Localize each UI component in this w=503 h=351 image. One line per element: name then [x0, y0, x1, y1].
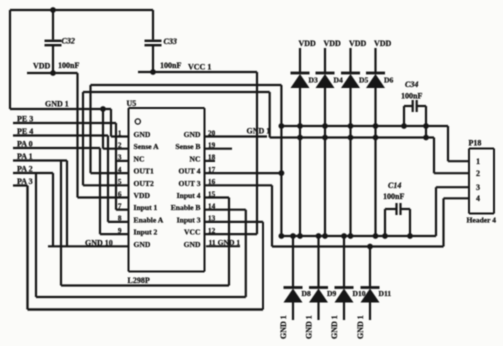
svg-text:GND: GND — [184, 130, 201, 139]
svg-text:11 GND 1: 11 GND 1 — [209, 238, 241, 247]
svg-text:100nF: 100nF — [401, 92, 422, 101]
svg-text:PA 2: PA 2 — [17, 165, 33, 174]
svg-text:15: 15 — [208, 190, 216, 198]
svg-text:7: 7 — [118, 203, 122, 211]
svg-text:D9: D9 — [327, 289, 336, 298]
svg-text:VDD: VDD — [33, 62, 51, 71]
svg-text:OUT1: OUT1 — [134, 167, 154, 176]
svg-text:2: 2 — [476, 169, 480, 178]
svg-text:OUT 3: OUT 3 — [178, 179, 200, 188]
svg-text:Sense A: Sense A — [134, 142, 160, 151]
svg-text:20: 20 — [208, 129, 216, 137]
svg-text:16: 16 — [208, 178, 216, 186]
svg-text:GND 1: GND 1 — [247, 127, 271, 136]
svg-text:19: 19 — [208, 142, 216, 150]
svg-text:1: 1 — [476, 157, 480, 166]
svg-text:GND 1: GND 1 — [279, 315, 288, 339]
svg-text:PE 4: PE 4 — [17, 127, 33, 136]
svg-text:C32: C32 — [62, 37, 75, 46]
svg-text:PA 0: PA 0 — [17, 140, 33, 149]
svg-text:Enable A: Enable A — [134, 215, 164, 224]
svg-text:100nF: 100nF — [383, 192, 404, 201]
svg-text:1: 1 — [118, 129, 122, 137]
svg-text:12: 12 — [208, 227, 216, 235]
svg-text:4: 4 — [476, 194, 480, 203]
svg-text:5: 5 — [118, 178, 122, 186]
svg-text:OUT2: OUT2 — [134, 179, 154, 188]
svg-text:3: 3 — [118, 154, 122, 162]
svg-text:PA 3: PA 3 — [17, 177, 33, 186]
svg-text:VDD: VDD — [134, 191, 151, 200]
svg-text:VDD: VDD — [299, 39, 317, 48]
svg-text:9: 9 — [118, 227, 122, 235]
svg-text:VDD: VDD — [324, 39, 342, 48]
svg-text:2: 2 — [118, 142, 122, 150]
svg-text:100nF: 100nF — [58, 61, 79, 70]
svg-text:3: 3 — [476, 183, 480, 192]
svg-text:Sense B: Sense B — [175, 142, 200, 151]
svg-text:Input 4: Input 4 — [177, 191, 201, 200]
svg-text:D11: D11 — [379, 289, 392, 298]
svg-text:VCC: VCC — [184, 228, 200, 237]
svg-text:PA 1: PA 1 — [17, 152, 33, 161]
svg-text:D6: D6 — [384, 76, 393, 85]
svg-text:4: 4 — [118, 166, 122, 174]
svg-text:GND 1: GND 1 — [45, 100, 69, 109]
svg-text:OUT 4: OUT 4 — [178, 167, 200, 176]
svg-text:6: 6 — [118, 190, 122, 198]
svg-text:D10: D10 — [353, 289, 366, 298]
svg-text:U5: U5 — [127, 99, 137, 108]
svg-text:NC: NC — [190, 154, 201, 163]
svg-text:GND 1: GND 1 — [330, 315, 339, 339]
svg-text:NC: NC — [134, 154, 145, 163]
svg-text:Header 4: Header 4 — [467, 216, 497, 225]
svg-text:C14: C14 — [388, 181, 401, 190]
svg-text:GND 1: GND 1 — [305, 315, 314, 339]
svg-text:L298P: L298P — [128, 276, 150, 285]
svg-text:Input 1: Input 1 — [134, 203, 158, 212]
svg-text:GND 10: GND 10 — [85, 239, 113, 248]
svg-text:D5: D5 — [359, 76, 368, 85]
svg-text:17: 17 — [208, 166, 216, 174]
svg-text:VDD: VDD — [349, 39, 367, 48]
svg-text:VCC 1: VCC 1 — [188, 63, 211, 72]
svg-text:13: 13 — [208, 215, 216, 223]
svg-text:18: 18 — [208, 154, 216, 162]
svg-text:8: 8 — [118, 215, 122, 223]
svg-text:GND: GND — [134, 130, 151, 139]
svg-text:PE 3: PE 3 — [17, 115, 33, 124]
svg-text:GND 1: GND 1 — [356, 315, 365, 339]
svg-text:D8: D8 — [302, 289, 311, 298]
svg-text:Enable B: Enable B — [171, 203, 201, 212]
svg-text:Input 2: Input 2 — [134, 228, 158, 237]
svg-text:D3: D3 — [309, 76, 318, 85]
svg-text:GND: GND — [134, 240, 151, 249]
svg-text:P18: P18 — [469, 139, 482, 148]
svg-text:14: 14 — [208, 203, 216, 211]
svg-text:D4: D4 — [334, 76, 343, 85]
svg-text:GND: GND — [184, 240, 201, 249]
svg-text:VDD: VDD — [374, 39, 392, 48]
svg-text:100nF: 100nF — [160, 61, 181, 70]
svg-text:Input 3: Input 3 — [177, 215, 201, 224]
svg-text:C34: C34 — [405, 80, 418, 89]
svg-text:C33: C33 — [164, 37, 177, 46]
